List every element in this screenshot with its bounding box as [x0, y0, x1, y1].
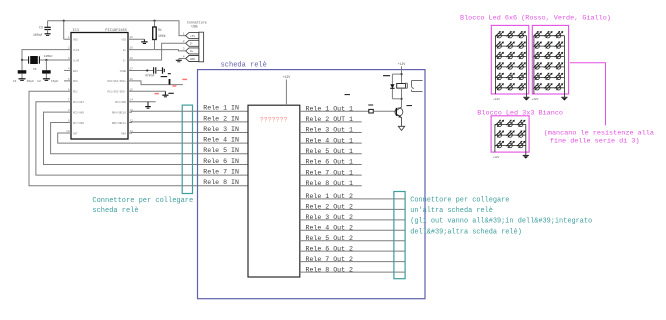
svg-text:Rele 5 Out 1: Rele 5 Out 1 — [306, 148, 354, 155]
svg-text:Rele 3 Out 1: Rele 3 Out 1 — [306, 127, 354, 134]
svg-text:CLKO: CLKO — [73, 59, 80, 62]
svg-text:1: 1 — [183, 32, 185, 35]
svg-text:scheda relè: scheda relè — [221, 61, 267, 69]
svg-text:Rele 1 Out 1: Rele 1 Out 1 — [306, 105, 354, 112]
svg-text:C3: C3 — [39, 26, 43, 30]
svg-text:Rele 4 IN: Rele 4 IN — [203, 137, 239, 144]
svg-text:+5V: +5V — [190, 35, 195, 38]
svg-text:Connettore per collegare: Connettore per collegare — [92, 197, 193, 205]
svg-text:Rele 1 Out 2: Rele 1 Out 2 — [306, 193, 354, 200]
svg-text:un'altra scheda relè: un'altra scheda relè — [410, 207, 493, 215]
svg-text:12MHz: 12MHz — [44, 54, 53, 58]
svg-text:VUSB: VUSB — [120, 70, 127, 73]
svg-text:X1: X1 — [33, 67, 37, 71]
svg-text:+12V: +12V — [398, 62, 406, 66]
svg-text:Rele 6 Out 1: Rele 6 Out 1 — [306, 159, 354, 166]
svg-text:(mancano le resistenze alla: (mancano le resistenze alla — [544, 129, 654, 137]
svg-text:R1: R1 — [158, 28, 162, 32]
svg-text:???????: ??????? — [260, 117, 288, 124]
svg-text:Connettore per collegare: Connettore per collegare — [410, 197, 509, 205]
svg-text:USB: USB — [192, 25, 198, 29]
svg-text:3: 3 — [183, 48, 185, 51]
svg-text:Rele 2 OUT 1: Rele 2 OUT 1 — [306, 116, 354, 123]
svg-text:RB4: RB4 — [121, 132, 126, 135]
svg-text:+12V: +12V — [493, 98, 500, 101]
svg-text:scheda relè: scheda relè — [92, 207, 138, 215]
svg-text:D-: D- — [190, 43, 194, 46]
svg-text:Rele 3 IN: Rele 3 IN — [203, 126, 239, 133]
svg-text:Rele 7 Out 2: Rele 7 Out 2 — [306, 256, 354, 263]
svg-text:D-: D- — [123, 59, 127, 62]
svg-text:INT: INT — [73, 132, 78, 135]
svg-text:RC1: RC1 — [73, 91, 78, 94]
svg-text:100k: 100k — [158, 34, 166, 38]
svg-text:RB5/SBC11: RB5/SBC11 — [112, 121, 126, 125]
svg-text:Rele 4 Out 1: Rele 4 Out 1 — [306, 137, 354, 144]
svg-text:fine delle serie di 3): fine delle serie di 3) — [550, 137, 640, 145]
svg-text:Rele 2 IN: Rele 2 IN — [203, 115, 239, 122]
svg-text:D+: D+ — [123, 49, 127, 52]
svg-text:VDD: VDD — [73, 39, 78, 42]
svg-text:RC7/AN9: RC7/AN9 — [73, 121, 84, 125]
svg-text:+12V: +12V — [532, 98, 539, 101]
svg-text:100nF: 100nF — [33, 33, 43, 37]
svg-text:+12V: +12V — [283, 75, 291, 79]
svg-text:RC1/SDI/SDO-: RC1/SDI/SDO- — [107, 90, 126, 94]
svg-text:dell&#39;altra scheda relè): dell&#39;altra scheda relè) — [410, 228, 522, 236]
svg-text:Rele 2 Out 2: Rele 2 Out 2 — [306, 204, 354, 211]
svg-text:RC3/AN7: RC3/AN7 — [73, 100, 84, 104]
svg-text:IC1: IC1 — [73, 29, 79, 33]
svg-text:Rele 8 IN: Rele 8 IN — [203, 179, 239, 186]
svg-text:Rele 6 Out 2: Rele 6 Out 2 — [306, 245, 354, 252]
svg-text:Rele 3 Out 2: Rele 3 Out 2 — [306, 214, 354, 221]
svg-text:GND: GND — [190, 58, 195, 61]
svg-text:470nF: 470nF — [145, 74, 155, 78]
svg-text:CLKI: CLKI — [73, 49, 80, 52]
svg-text:Rele 5 Out 2: Rele 5 Out 2 — [306, 235, 354, 242]
svg-text:RC0: RC0 — [73, 80, 78, 83]
svg-text:Rele 7 IN: Rele 7 IN — [203, 169, 239, 176]
svg-text:C1: C1 — [13, 79, 17, 83]
svg-text:Rele 8 Out 1: Rele 8 Out 1 — [306, 180, 354, 187]
svg-text:RB4/SBC10: RB4/SBC10 — [112, 110, 126, 114]
svg-text:RC0/SDI/SDO+: RC0/SDI/SDO+ — [107, 79, 126, 83]
svg-text:2: 2 — [183, 40, 185, 43]
svg-text:Rele 6 IN: Rele 6 IN — [203, 158, 239, 165]
svg-text:VSS: VSS — [121, 39, 126, 42]
svg-text:(gli out vanno all&#39;in dell: (gli out vanno all&#39;in dell&#39;integ… — [410, 218, 592, 226]
svg-text:Rele 4 Out 2: Rele 4 Out 2 — [306, 224, 354, 231]
svg-text:+12V: +12V — [493, 156, 500, 159]
svg-text:15pF: 15pF — [27, 79, 35, 83]
svg-text:Blocco Led 3x3 Bianco: Blocco Led 3x3 Bianco — [477, 110, 563, 118]
svg-text:RC5/AN9: RC5/AN9 — [73, 110, 84, 114]
svg-text:PIC18F2455: PIC18F2455 — [105, 29, 127, 33]
svg-text:Rele 1 IN: Rele 1 IN — [203, 105, 239, 112]
svg-text:4: 4 — [183, 55, 185, 58]
svg-text:C2: C2 — [37, 79, 41, 83]
svg-text:Rele 5 IN: Rele 5 IN — [203, 147, 239, 154]
svg-text:D+: D+ — [190, 50, 194, 53]
svg-text:Rele 8 Out 2: Rele 8 Out 2 — [306, 266, 354, 273]
svg-text:RA3: RA3 — [73, 70, 78, 73]
svg-text:Rele 7 Out 1: Rele 7 Out 1 — [306, 169, 354, 176]
svg-text:Blocco Led 6x6 (Rosso, Verde,: Blocco Led 6x6 (Rosso, Verde, Giallo) — [460, 15, 611, 23]
svg-text:RC2/SDS: RC2/SDS — [115, 100, 126, 104]
svg-text:15pF: 15pF — [51, 79, 59, 83]
